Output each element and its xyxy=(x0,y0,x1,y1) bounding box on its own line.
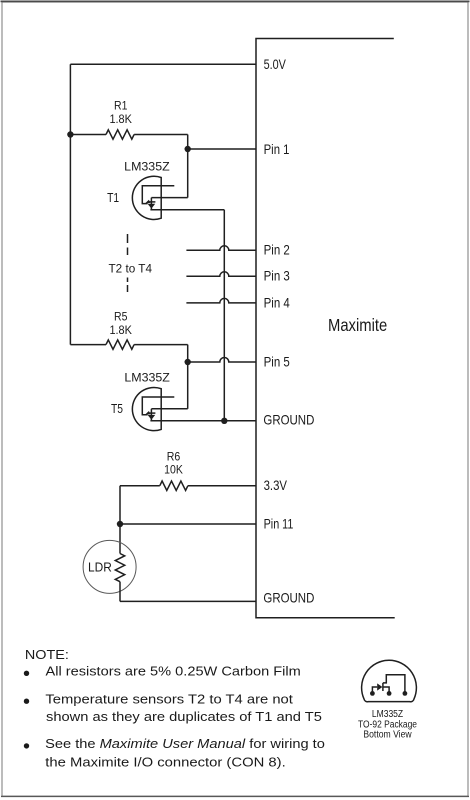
svg-text:Pin 4: Pin 4 xyxy=(264,295,290,310)
dashed line T2..T4 xyxy=(127,234,129,292)
bullet 1 dot xyxy=(24,671,29,676)
node junction dot Pin1 xyxy=(185,146,191,152)
legend pin dot left xyxy=(370,691,375,696)
wire T1 ground vertical down xyxy=(223,210,225,421)
svg-text:Pin 5: Pin 5 xyxy=(264,354,290,369)
node junction dot at 5V rail / R1 xyxy=(67,131,73,137)
legend TO-92 package outline xyxy=(362,660,417,701)
wire T1 ground lead horizontal xyxy=(150,209,224,211)
legend inner diode wiring xyxy=(372,675,405,694)
wire GROUND line (T5 lead to box) xyxy=(150,420,256,422)
svg-text:1.8K: 1.8K xyxy=(109,324,132,337)
svg-text:Pin 1: Pin 1 xyxy=(264,142,290,157)
wire bottom ground horizontal xyxy=(120,600,256,602)
Maximite IC box xyxy=(256,39,395,618)
svg-text:1.8K: 1.8K xyxy=(109,113,132,126)
svg-text:10K: 10K xyxy=(164,464,183,477)
LDR photoresistor xyxy=(83,540,136,593)
resistor R5 xyxy=(70,340,187,349)
svg-text:Pin 11: Pin 11 xyxy=(264,516,294,531)
svg-text:LM335Z: LM335Z xyxy=(124,160,170,174)
wire Pin 11 stub xyxy=(120,523,256,525)
svg-text:Pin 2: Pin 2 xyxy=(264,243,290,258)
wire LDR bottom vertical xyxy=(119,582,121,602)
svg-text:T2 to T4: T2 to T4 xyxy=(109,263,153,276)
wire Pin 3 stub with hop xyxy=(186,272,256,277)
svg-text:T5: T5 xyxy=(111,402,123,416)
wire Pin 1 stub xyxy=(188,148,256,150)
svg-text:Maximite: Maximite xyxy=(328,315,387,335)
svg-text:3.3V: 3.3V xyxy=(264,478,288,493)
svg-text:GROUND: GROUND xyxy=(263,413,314,428)
node junction dot Pin5 xyxy=(185,359,191,365)
svg-text:T1: T1 xyxy=(107,191,119,205)
bullet 3 dot xyxy=(24,743,29,748)
wire Pin 4 stub with hop xyxy=(186,298,256,303)
legend pin dot middle xyxy=(387,691,392,696)
svg-text:R5: R5 xyxy=(114,311,127,324)
wire R6 left vertical xyxy=(119,486,121,554)
wire 5.0V rail horizontal xyxy=(70,63,256,65)
wire Pin 5 stub with hop xyxy=(188,358,256,363)
resistor R1 xyxy=(70,130,187,139)
temperature sensor T1 LM335Z xyxy=(132,176,174,219)
temperature sensor T5 LM335Z xyxy=(132,387,174,430)
svg-text:R6: R6 xyxy=(167,450,181,463)
bullet 2 dot xyxy=(24,699,29,704)
svg-text:GROUND: GROUND xyxy=(263,591,314,606)
svg-text:See the Maximite User Manual f: See the Maximite User Manual for wiring … xyxy=(45,736,325,751)
wire R1 to T1 vertical xyxy=(187,135,189,198)
node junction dot ground xyxy=(221,418,227,424)
svg-text:NOTE:: NOTE: xyxy=(25,648,69,662)
legend pin dot right xyxy=(403,691,408,696)
wire R5 to T5 vertical xyxy=(187,345,189,409)
svg-text:Temperature sensors T2 to T4 a: Temperature sensors T2 to T4 are not xyxy=(45,691,293,706)
node junction dot Pin11 xyxy=(117,521,123,527)
svg-text:shown as they are duplicates o: shown as they are duplicates of T1 and T… xyxy=(46,709,322,724)
wire 5.0V rail vertical left xyxy=(69,64,71,344)
wire Pin 2 stub with hop xyxy=(186,246,256,251)
svg-text:5.0V: 5.0V xyxy=(264,57,287,72)
svg-text:R1: R1 xyxy=(114,100,127,113)
wire T1 plus lead xyxy=(151,197,187,199)
svg-text:the Maximite I/O connector (CO: the Maximite I/O connector (CON 8). xyxy=(45,755,285,770)
svg-text:All resistors are 5% 0.25W Car: All resistors are 5% 0.25W Carbon Film xyxy=(46,663,301,678)
wire T5 plus lead xyxy=(151,408,187,410)
svg-text:LM335Z: LM335Z xyxy=(124,371,169,385)
svg-text:Bottom View: Bottom View xyxy=(363,729,412,740)
svg-text:Pin 3: Pin 3 xyxy=(264,269,290,284)
svg-text:LDR: LDR xyxy=(88,560,112,575)
resistor R6 xyxy=(120,481,256,490)
